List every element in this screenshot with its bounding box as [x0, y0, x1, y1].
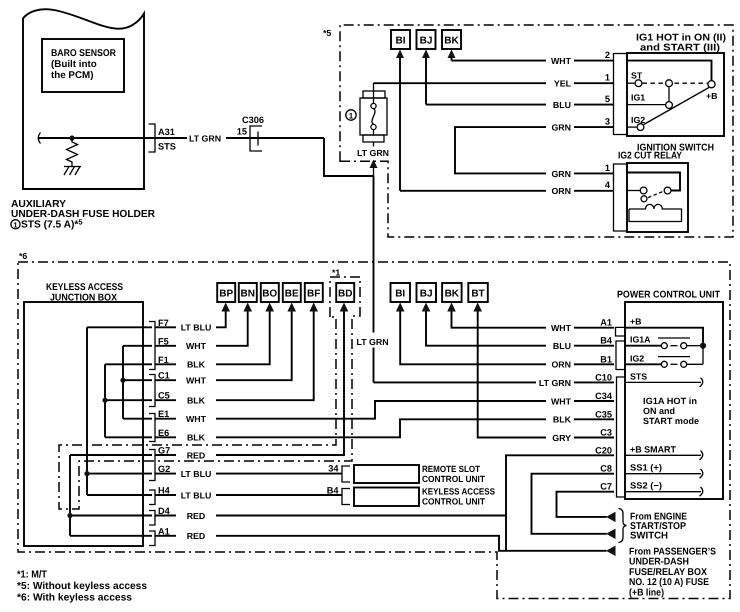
- bus RED G7-D4-A1: [70, 455, 152, 536]
- svg-text:+B: +B: [630, 317, 642, 327]
- connector BD: [336, 283, 354, 302]
- connector BK (lower): [442, 283, 462, 302]
- svg-text:POWER CONTROL UNIT: POWER CONTROL UNIT: [617, 290, 720, 301]
- wire PCM to A31: [39, 137, 187, 139]
- connector BF: [305, 283, 323, 302]
- svg-text:C20: C20: [595, 445, 612, 455]
- wire YEL row: [374, 82, 615, 84]
- svg-text:GRN: GRN: [551, 123, 571, 133]
- svg-text:B4: B4: [600, 336, 613, 346]
- connector BK (top): [442, 30, 461, 49]
- svg-text:CONTROL UNIT: CONTROL UNIT: [422, 474, 485, 484]
- arrow into BK (top): [448, 50, 456, 59]
- ground: [64, 167, 81, 176]
- svg-text:1: 1: [13, 220, 17, 229]
- svg-text:(Built into: (Built into: [51, 59, 97, 70]
- arrow from engine start/stop switch (SS1): [606, 529, 616, 539]
- svg-text:STS: STS: [630, 371, 647, 381]
- arrow to fuse holder: [373, 167, 375, 176]
- switch actuator dashed: [643, 82, 708, 84]
- svg-text:SS1 (+): SS1 (+): [630, 463, 662, 473]
- svg-text:3: 3: [605, 117, 610, 127]
- svg-text:+B SMART: +B SMART: [630, 444, 676, 454]
- bus LT BLU F7-G2-H4: [87, 327, 152, 495]
- arrow into BE: [287, 303, 296, 312]
- keyless access control unit box: [354, 488, 419, 507]
- wire C8 SS1: [532, 474, 615, 534]
- svg-text:BK: BK: [445, 289, 460, 300]
- svg-text:BT: BT: [471, 289, 484, 300]
- svg-text:CONTROL UNIT: CONTROL UNIT: [422, 497, 485, 507]
- ignition switch internals: [627, 61, 712, 81]
- svg-text:BLU: BLU: [553, 341, 571, 351]
- remote slot control unit box: [354, 465, 419, 483]
- svg-text:1: 1: [605, 73, 610, 83]
- wire BI to ORN row: [400, 311, 614, 364]
- node G2: [84, 471, 89, 476]
- power control unit box: [625, 302, 723, 499]
- IG2 cut relay internals: [627, 173, 680, 191]
- svg-text:*1: *1: [332, 268, 340, 278]
- ignition switch connector bracket: [614, 54, 628, 135]
- wire break arc: [38, 133, 40, 144]
- svg-text:BI: BI: [395, 289, 405, 300]
- svg-text:BLU: BLU: [553, 100, 571, 110]
- svg-text:BLK: BLK: [187, 433, 206, 443]
- svg-text:5: 5: [605, 94, 610, 104]
- dashed box *1 (M/T) around BD and G7 wire: [59, 277, 360, 509]
- svg-text:WHT: WHT: [551, 56, 572, 66]
- node resistor tap: [69, 135, 74, 140]
- svg-text:RED: RED: [187, 531, 206, 541]
- svg-text:WHT: WHT: [551, 396, 572, 406]
- svg-text:ST: ST: [631, 71, 643, 81]
- svg-text:+B: +B: [706, 91, 718, 101]
- svg-text:BE: BE: [285, 289, 299, 300]
- svg-text:RED: RED: [187, 511, 206, 521]
- svg-text:STS (7.5 A)*5: STS (7.5 A)*5: [21, 218, 83, 231]
- svg-text:WHT: WHT: [551, 323, 572, 333]
- svg-text:A1: A1: [158, 526, 170, 536]
- terminal +B: [708, 81, 715, 88]
- arrow into BI: [396, 303, 405, 312]
- svg-text:YEL: YEL: [554, 79, 572, 89]
- svg-text:G7: G7: [158, 446, 170, 456]
- keyless access junction box: [24, 302, 143, 546]
- wire BT to GRY row: [478, 311, 614, 438]
- svg-text:BP: BP: [219, 289, 233, 300]
- svg-text:BD: BD: [338, 289, 352, 300]
- wire to C306: [226, 137, 324, 139]
- svg-text:LT GRN: LT GRN: [357, 337, 389, 347]
- svg-text:GRY: GRY: [552, 433, 571, 443]
- svg-text:2: 2: [605, 50, 610, 60]
- connector BJ (top): [417, 30, 436, 49]
- svg-text:BLK: BLK: [553, 415, 572, 425]
- fuse 1 STS: [363, 91, 385, 98]
- svg-text:F5: F5: [158, 336, 169, 346]
- svg-text:ON and: ON and: [643, 406, 675, 416]
- dashed box *6 (with keyless access): [18, 262, 730, 599]
- svg-text:ORN: ORN: [551, 360, 571, 370]
- svg-text:*5: *5: [323, 28, 331, 38]
- svg-text:C5: C5: [158, 391, 170, 401]
- svg-text:A1: A1: [600, 318, 612, 328]
- svg-text:(+B line): (+B line): [629, 587, 664, 598]
- svg-text:4: 4: [605, 180, 611, 190]
- dashed box *5 (without keyless access): [340, 25, 733, 237]
- wire BJ to BLU row: [425, 57, 427, 105]
- svg-text:BJ: BJ: [420, 36, 433, 47]
- IG2 cut relay box: [627, 163, 688, 232]
- arrow into BJ: [422, 303, 431, 312]
- svg-text:and START (III): and START (III): [640, 43, 720, 54]
- svg-text:C7: C7: [600, 482, 612, 492]
- arrow into BN: [243, 303, 252, 312]
- svg-text:15: 15: [237, 127, 247, 137]
- svg-text:C1: C1: [158, 371, 170, 381]
- arrow into BK: [447, 303, 456, 312]
- svg-text:KEYLESS ACCESS: KEYLESS ACCESS: [46, 282, 123, 293]
- svg-text:C35: C35: [595, 409, 612, 419]
- connector BT: [468, 283, 488, 302]
- connector bracket C1/C5: [149, 375, 155, 407]
- PCU connector bracket A: [616, 327, 626, 336]
- svg-text:C3: C3: [600, 428, 612, 438]
- wire BLU row: [426, 104, 614, 106]
- arrow into BT: [473, 303, 482, 312]
- wire C20 +B SMART feed: [506, 455, 614, 551]
- bus WHT F5-C1-E1: [123, 346, 152, 419]
- PCM box (wavy top): [23, 9, 144, 189]
- bus BLK F1-C5-E6: [105, 364, 152, 437]
- svg-text:KEYLESS ACCESS: KEYLESS ACCESS: [422, 487, 495, 497]
- svg-text:JUNCTION BOX: JUNCTION BOX: [50, 293, 117, 304]
- svg-text:C10: C10: [595, 372, 612, 382]
- arrow into BP: [221, 303, 230, 312]
- svg-text:H4: H4: [158, 486, 171, 496]
- PCU connector bracket C: [617, 377, 626, 497]
- connector BJ (lower): [417, 283, 437, 302]
- svg-text:1: 1: [605, 163, 610, 173]
- svg-text:LT BLU: LT BLU: [181, 323, 212, 333]
- svg-text:BN: BN: [240, 289, 254, 300]
- svg-text:*6: *6: [19, 251, 27, 261]
- connector BI (top): [391, 30, 410, 49]
- svg-text:BK: BK: [444, 36, 459, 47]
- connector BI (lower): [391, 283, 411, 302]
- svg-text:STS: STS: [158, 142, 176, 152]
- connector BN: [239, 283, 257, 302]
- arrow from engine start/stop switch (SS2): [606, 512, 616, 522]
- relay contact: [627, 190, 640, 192]
- svg-text:*5: Without keyless access: *5: Without keyless access: [17, 581, 147, 592]
- svg-text:IG2: IG2: [631, 115, 645, 125]
- connector BP: [217, 283, 235, 302]
- switch wiper diagonal: [644, 88, 709, 125]
- svg-text:AUXILIARY: AUXILIARY: [11, 199, 66, 210]
- arrow into BD: [340, 303, 349, 312]
- wire LT GRN row to C10: [374, 381, 615, 383]
- svg-text:F1: F1: [158, 355, 169, 365]
- svg-text:BLK: BLK: [187, 360, 206, 370]
- svg-text:A31: A31: [158, 127, 175, 137]
- svg-text:*6: With keyless access: *6: With keyless access: [17, 593, 132, 604]
- connector BO: [261, 283, 279, 302]
- PCU connector bracket B: [616, 341, 625, 370]
- arrow from passenger fuse box: [606, 546, 616, 556]
- svg-text:E1: E1: [158, 409, 169, 419]
- connector A31 bracket: [149, 124, 156, 152]
- connector bracket A1: [149, 531, 155, 546]
- connector bracket F7/F5/F1: [149, 322, 155, 370]
- connector bracket G7/G2: [149, 450, 155, 481]
- svg-text:BI: BI: [396, 36, 406, 47]
- connector bracket H4: [149, 490, 155, 505]
- svg-text:34: 34: [328, 464, 339, 474]
- connector C306 symbol: [250, 126, 262, 151]
- wire C7 SS2: [557, 492, 615, 517]
- svg-text:LT BLU: LT BLU: [181, 469, 212, 479]
- svg-text:START mode: START mode: [643, 416, 699, 426]
- svg-text:LT BLU: LT BLU: [181, 490, 212, 500]
- svg-text:WHT: WHT: [186, 341, 207, 351]
- svg-text:C34: C34: [595, 391, 613, 401]
- connector bracket D4: [149, 511, 155, 526]
- svg-text:C306: C306: [242, 115, 264, 125]
- svg-text:LT GRN: LT GRN: [539, 378, 571, 388]
- wire BJ to BLU row: [426, 311, 614, 346]
- svg-text:REMOTE SLOT: REMOTE SLOT: [422, 464, 480, 474]
- svg-text:GRN: GRN: [551, 169, 571, 179]
- svg-text:BJ: BJ: [420, 289, 433, 300]
- svg-text:*1: M/T: *1: M/T: [17, 570, 48, 581]
- svg-text:IG1: IG1: [631, 93, 645, 103]
- wire BK to WHT row: [451, 57, 453, 61]
- svg-text:LT GRN: LT GRN: [357, 148, 389, 158]
- svg-text:IG2: IG2: [630, 353, 644, 363]
- svg-text:BF: BF: [307, 289, 320, 300]
- svg-text:E6: E6: [158, 428, 169, 438]
- wire BK to WHT row: [452, 311, 615, 328]
- svg-text:B4: B4: [327, 486, 340, 496]
- svg-text:ORN: ORN: [551, 186, 571, 196]
- svg-text:the PCM): the PCM): [51, 70, 93, 81]
- relay coil: [629, 204, 682, 221]
- BARO SENSOR box: [42, 39, 124, 92]
- svg-text:C8: C8: [600, 464, 612, 474]
- svg-text:RED: RED: [187, 450, 206, 460]
- svg-text:WHT: WHT: [186, 376, 207, 386]
- node C1: [120, 378, 125, 383]
- brace: [619, 509, 627, 543]
- wire GRN row to IG2: [455, 127, 614, 173]
- svg-text:IG1A HOT in: IG1A HOT in: [643, 396, 697, 406]
- svg-text:F7: F7: [158, 318, 169, 328]
- connector bracket E1/E6: [149, 414, 155, 442]
- svg-text:SWITCH: SWITCH: [630, 531, 668, 542]
- svg-text:SS2 (−): SS2 (−): [630, 481, 662, 491]
- arrow into BI (top): [396, 50, 404, 59]
- wire vertical LT GRN to lower section: [373, 176, 375, 382]
- svg-text:BARO SENSOR: BARO SENSOR: [51, 48, 116, 59]
- arrow into BO: [265, 303, 274, 312]
- arrow into BJ (top): [422, 50, 430, 59]
- arrow into BF: [309, 303, 318, 312]
- svg-text:B1: B1: [600, 354, 612, 364]
- fuse number 1: [346, 110, 356, 120]
- wire BI to ORN row: [399, 57, 401, 191]
- wire ORN row: [400, 190, 614, 192]
- connector BE: [283, 283, 301, 302]
- resistor R (pull-down in PCM): [67, 138, 78, 166]
- svg-text:BLK: BLK: [187, 396, 206, 406]
- wire WHT row: [452, 60, 615, 62]
- svg-text:IG2 CUT RELAY: IG2 CUT RELAY: [618, 151, 682, 162]
- node D4: [67, 513, 72, 518]
- IG2 cut relay bracket: [614, 164, 628, 231]
- svg-text:WHT: WHT: [186, 414, 207, 424]
- svg-text:IG1A: IG1A: [630, 335, 651, 345]
- svg-text:LT GRN: LT GRN: [189, 134, 221, 144]
- node C5: [102, 398, 107, 403]
- wire C306 down and right: [324, 138, 374, 176]
- svg-text:G2: G2: [158, 464, 170, 474]
- relay armature dashed: [648, 192, 663, 198]
- svg-text:D4: D4: [158, 506, 171, 516]
- svg-text:1: 1: [349, 111, 354, 120]
- svg-text:BO: BO: [262, 289, 277, 300]
- ignition switch box: [627, 53, 724, 136]
